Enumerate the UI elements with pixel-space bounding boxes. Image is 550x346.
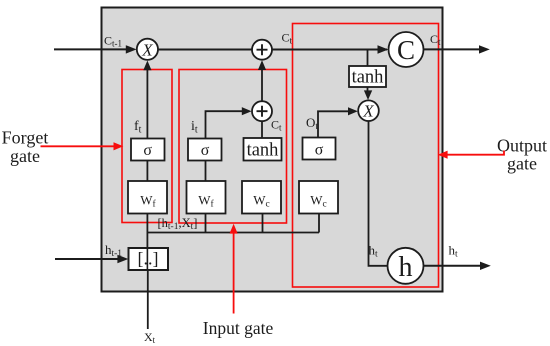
svg-text:tanh: tanh: [352, 68, 384, 88]
wire X1 to +1: [158, 49, 252, 51]
weight box Wc output: [299, 181, 338, 214]
svg-text:Xt: Xt: [144, 330, 156, 345]
weight box Wc input: [242, 181, 281, 214]
multiply circle X2: [358, 100, 379, 121]
wire Ot up and right into X2: [318, 111, 349, 137]
svg-text:[..]: [..]: [138, 249, 159, 269]
sigma box forget: [131, 139, 165, 161]
svg-text:tanh: tanh: [247, 141, 279, 161]
cell state circle C: [389, 32, 424, 67]
wire Wc-o down to bus: [318, 214, 320, 233]
weight box Wf input: [187, 181, 226, 214]
svg-text:σ: σ: [201, 142, 210, 159]
svg-text:X: X: [141, 40, 153, 59]
tanh box input: [244, 138, 282, 161]
wire output tanh to X2: [367, 87, 369, 92]
wire Wf down to bus: [146, 214, 148, 249]
output gate red outline: [293, 24, 439, 288]
svg-text:Forget: Forget: [2, 128, 49, 148]
sigma box input: [188, 139, 222, 161]
wire +1 to C: [272, 49, 387, 51]
svg-text:σ: σ: [315, 142, 324, 159]
weight box Wf forget: [128, 181, 167, 214]
svg-text:Input gate: Input gate: [203, 318, 274, 338]
wire Xt input: [147, 270, 149, 329]
svg-text:h: h: [399, 252, 413, 283]
svg-text:gate: gate: [10, 146, 40, 166]
hidden state circle h: [388, 248, 424, 284]
wire it up and right into +2: [206, 111, 243, 139]
add circle +2: [252, 101, 272, 121]
wire Ct-1 input: [54, 48, 127, 50]
red arrow to forget gate: [41, 145, 115, 147]
wire h output: [424, 265, 482, 267]
sigma box output: [303, 138, 336, 160]
svg-text:σ: σ: [143, 142, 152, 159]
wire through concat box: [146, 248, 148, 270]
red arrow to output gate: [447, 151, 504, 155]
tanh box output: [349, 66, 386, 87]
wire Wf-i down to bus: [205, 214, 207, 233]
LSTM cell body: [102, 8, 443, 292]
wire +2 up into +1: [261, 69, 263, 101]
svg-text:C: C: [397, 35, 415, 65]
svg-text:X: X: [362, 102, 374, 121]
wire up into X1: [146, 69, 148, 139]
add circle +1: [252, 40, 272, 60]
wire tanh input to +2: [261, 121, 263, 138]
wire Wc-i down to bus: [262, 214, 264, 233]
wire sigma-f to Wf: [146, 160, 148, 181]
wire C output: [424, 48, 481, 50]
forget gate red outline: [122, 70, 172, 223]
concat box: [129, 248, 169, 270]
wire ht-1 input: [55, 258, 119, 260]
wire concat bus: [147, 232, 319, 234]
red arrow to input gate: [233, 233, 235, 314]
input gate red outline: [179, 70, 287, 224]
multiply circle X1: [137, 39, 158, 60]
svg-text:gate: gate: [507, 154, 537, 174]
svg-text:ht: ht: [449, 243, 459, 260]
wire branch down to output tanh: [367, 50, 369, 67]
wire X2 down to h: [369, 121, 388, 266]
wire sigma-i to Wf: [205, 160, 207, 181]
